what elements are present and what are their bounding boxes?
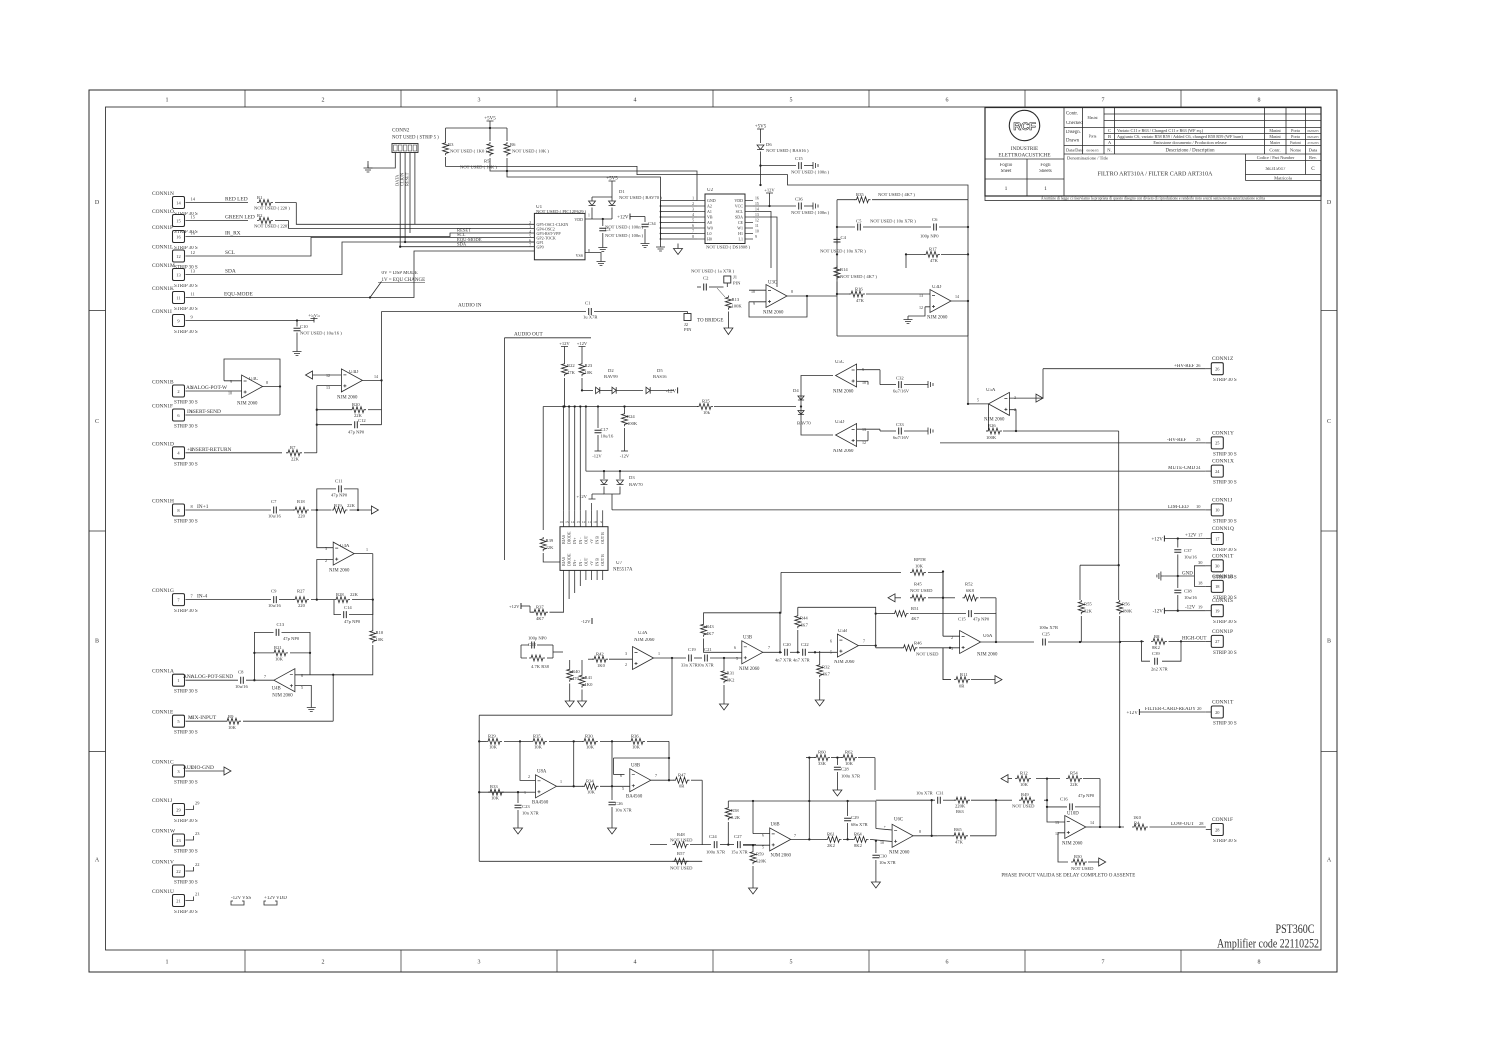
svg-text:33n X7R: 33n X7R xyxy=(681,663,699,668)
svg-text:-12V: -12V xyxy=(581,619,591,624)
svg-text:L1: L1 xyxy=(739,237,743,242)
svg-text:4: 4 xyxy=(529,230,531,234)
svg-text:C6: C6 xyxy=(932,217,938,222)
svg-text:47p NP0: 47p NP0 xyxy=(344,619,361,624)
svg-text:47K: 47K xyxy=(930,258,939,263)
svg-text:PIN: PIN xyxy=(684,327,692,332)
svg-text:C8: C8 xyxy=(238,670,244,675)
svg-text:BAV99: BAV99 xyxy=(604,374,618,379)
svg-text:-HV-REF: -HV-REF xyxy=(1167,438,1186,443)
svg-text:10k: 10k xyxy=(703,410,711,415)
svg-text:+12V: +12V xyxy=(577,341,588,346)
svg-text:NOT USED ( 100n ): NOT USED ( 100n ) xyxy=(791,210,830,215)
svg-text:INSERT-SEND: INSERT-SEND xyxy=(187,409,221,415)
svg-text:22K: 22K xyxy=(291,457,300,462)
svg-text:C21: C21 xyxy=(704,647,712,652)
svg-text:R41: R41 xyxy=(585,675,593,680)
svg-text:10n X7R: 10n X7R xyxy=(879,860,897,865)
svg-text:C: C xyxy=(1327,419,1331,425)
svg-text:100p NP0: 100p NP0 xyxy=(920,234,939,239)
svg-text:3: 3 xyxy=(951,646,953,651)
svg-text:5: 5 xyxy=(790,960,793,966)
svg-text:GND: GND xyxy=(1182,572,1193,577)
svg-text:+INSERT-RETURN: +INSERT-RETURN xyxy=(187,447,232,453)
svg-text:C37: C37 xyxy=(1184,548,1192,553)
svg-text:NOT USED: NOT USED xyxy=(1071,866,1094,871)
svg-text:C11: C11 xyxy=(335,479,343,484)
svg-text:R39: R39 xyxy=(546,538,554,543)
svg-text:CONN1T: CONN1T xyxy=(1212,553,1234,559)
svg-text:+5V5: +5V5 xyxy=(606,177,618,182)
svg-text:5: 5 xyxy=(692,219,694,223)
svg-text:IN+: IN+ xyxy=(572,559,577,566)
svg-text:Data: Data xyxy=(1309,148,1318,153)
svg-text:8: 8 xyxy=(266,380,268,385)
svg-text:Fogli: Fogli xyxy=(1040,163,1051,168)
svg-text:7: 7 xyxy=(768,645,770,650)
svg-text:R5: R5 xyxy=(484,159,490,164)
svg-text:10: 10 xyxy=(862,380,866,385)
svg-text:7: 7 xyxy=(794,833,796,838)
svg-text:BIAS: BIAS xyxy=(561,535,566,544)
svg-text:5: 5 xyxy=(790,98,793,104)
svg-text:A0: A0 xyxy=(707,220,712,225)
svg-text:1: 1 xyxy=(1044,186,1047,192)
svg-text:ELETTROACUSTICHE: ELETTROACUSTICHE xyxy=(998,153,1050,159)
svg-text:47p NP0: 47p NP0 xyxy=(331,493,348,498)
svg-text:STRIP 30 S: STRIP 30 S xyxy=(174,690,198,695)
svg-text:10: 10 xyxy=(755,230,759,234)
svg-text:6: 6 xyxy=(734,645,736,650)
svg-text:C7: C7 xyxy=(271,499,277,504)
svg-text:U4B: U4B xyxy=(272,687,281,692)
svg-text:10n X7R: 10n X7R xyxy=(615,808,633,813)
svg-text:D2: D2 xyxy=(608,368,614,373)
svg-text:BIAS: BIAS xyxy=(561,557,566,566)
svg-text:2: 2 xyxy=(177,389,179,394)
svg-text:5: 5 xyxy=(736,656,738,661)
svg-text:NOT USED ( 10n X7R ): NOT USED ( 10n X7R ) xyxy=(820,249,866,254)
svg-text:9: 9 xyxy=(230,379,232,384)
svg-text:1: 1 xyxy=(588,214,590,218)
svg-text:U6A: U6A xyxy=(983,634,993,639)
svg-text:4: 4 xyxy=(634,960,637,966)
svg-text:220K: 220K xyxy=(955,804,966,809)
svg-text:R27: R27 xyxy=(297,589,305,594)
svg-text:C: C xyxy=(1311,166,1315,172)
svg-text:16: 16 xyxy=(755,197,759,201)
svg-text:47p NP0: 47p NP0 xyxy=(973,617,990,622)
svg-text:2: 2 xyxy=(322,98,325,104)
svg-text:VDD: VDD xyxy=(734,198,743,203)
svg-text:13: 13 xyxy=(755,213,759,217)
svg-text:3: 3 xyxy=(529,225,531,229)
svg-text:06/04/05: 06/04/05 xyxy=(1307,135,1319,139)
svg-text:R17: R17 xyxy=(929,247,937,252)
svg-text:6: 6 xyxy=(620,773,622,778)
svg-text:STRIP 30 S: STRIP 30 S xyxy=(1213,481,1237,486)
svg-text:R44: R44 xyxy=(800,616,808,621)
svg-text:NOT USED ( 220 ): NOT USED ( 220 ) xyxy=(254,206,290,211)
svg-text:6: 6 xyxy=(529,239,531,243)
svg-text:NOT USED: NOT USED xyxy=(910,588,933,593)
svg-text:R31: R31 xyxy=(727,671,735,676)
svg-text:22K: 22K xyxy=(350,592,359,597)
svg-text:10K: 10K xyxy=(376,637,385,642)
svg-text:C16: C16 xyxy=(1060,797,1068,802)
svg-text:NJM 2060: NJM 2060 xyxy=(739,667,760,672)
svg-text:STRIP 30 S: STRIP 30 S xyxy=(174,284,198,289)
svg-text:R54: R54 xyxy=(1070,771,1078,776)
svg-text:4K7: 4K7 xyxy=(800,623,809,628)
svg-text:FILTRO ART310A / FILTER CARD A: FILTRO ART310A / FILTER CARD ART310A xyxy=(1097,172,1213,178)
svg-text:6: 6 xyxy=(830,639,832,644)
svg-text:4K7: 4K7 xyxy=(911,616,920,621)
svg-text:U4C: U4C xyxy=(249,377,258,382)
svg-text:11: 11 xyxy=(191,292,195,297)
svg-text:L0: L0 xyxy=(707,231,711,236)
svg-text:47K: 47K xyxy=(567,370,576,375)
svg-text:180K: 180K xyxy=(1122,609,1133,614)
svg-text:R30: R30 xyxy=(585,734,593,739)
svg-text:R11: R11 xyxy=(960,672,968,677)
svg-text:47p NP0: 47p NP0 xyxy=(1078,793,1095,798)
svg-text:4.7K R38: 4.7K R38 xyxy=(531,664,550,669)
svg-text:STRIP 30 S: STRIP 30 S xyxy=(174,781,198,786)
svg-text:82K: 82K xyxy=(1084,609,1093,614)
svg-text:CONN1T: CONN1T xyxy=(1212,700,1234,706)
svg-text:R51: R51 xyxy=(911,606,919,611)
svg-text:7: 7 xyxy=(529,243,531,247)
svg-text:4n7 X7R: 4n7 X7R xyxy=(793,658,811,663)
svg-text:+12V: +12V xyxy=(264,896,276,901)
svg-text:VCC: VCC xyxy=(735,204,744,209)
svg-text:CONN1R: CONN1R xyxy=(1212,574,1234,580)
svg-text:NOT USED ( 10K ): NOT USED ( 10K ) xyxy=(512,149,549,154)
svg-text:VSS: VSS xyxy=(576,253,583,258)
svg-text:R3: R3 xyxy=(448,142,454,147)
svg-text:R28: R28 xyxy=(336,592,344,597)
svg-text:SCL: SCL xyxy=(736,209,744,214)
svg-text:C15: C15 xyxy=(958,617,966,622)
svg-text:STRIP 30 S: STRIP 30 S xyxy=(174,850,198,855)
svg-text:C39: C39 xyxy=(1152,651,1160,656)
svg-text:Denominazione / Title: Denominazione / Title xyxy=(1067,156,1108,161)
svg-text:+12V: +12V xyxy=(764,188,775,193)
svg-text:W0: W0 xyxy=(707,226,713,231)
svg-text:4K7: 4K7 xyxy=(706,631,715,636)
svg-text:BA4560: BA4560 xyxy=(626,795,643,800)
svg-text:R19: R19 xyxy=(334,503,342,508)
svg-text:CONN1I: CONN1I xyxy=(152,309,172,315)
svg-text:0R: 0R xyxy=(679,784,685,789)
svg-text:8K2: 8K2 xyxy=(854,843,863,848)
svg-text:R18: R18 xyxy=(297,499,305,504)
svg-text:VB: VB xyxy=(707,215,713,220)
svg-text:+5V5: +5V5 xyxy=(755,125,767,130)
svg-text:STRIP 30 S: STRIP 30 S xyxy=(1213,620,1237,625)
svg-text:9: 9 xyxy=(600,520,602,524)
svg-text:27/02/05: 27/02/05 xyxy=(1307,141,1319,145)
svg-text:8: 8 xyxy=(1258,960,1261,966)
svg-text:W1: W1 xyxy=(737,226,743,231)
svg-text:10K: 10K xyxy=(586,745,595,750)
svg-text:12: 12 xyxy=(326,373,330,378)
svg-text:10K: 10K xyxy=(632,745,641,750)
svg-text:R1: R1 xyxy=(257,195,263,200)
svg-text:7: 7 xyxy=(863,639,865,644)
svg-text:RCF: RCF xyxy=(1013,121,1036,133)
svg-text:R35: R35 xyxy=(856,192,864,197)
svg-text:8K2: 8K2 xyxy=(1152,645,1161,650)
svg-text:13: 13 xyxy=(1055,820,1059,825)
svg-text:Porta: Porta xyxy=(1291,128,1300,133)
svg-text:+12V: +12V xyxy=(576,494,587,499)
svg-text:NJM 2060: NJM 2060 xyxy=(984,418,1005,423)
svg-text:IN B: IN B xyxy=(595,536,600,544)
svg-text:NOT USED ( 10u/16 ): NOT USED ( 10u/16 ) xyxy=(300,331,342,336)
svg-text:1: 1 xyxy=(692,197,694,201)
svg-text:R42: R42 xyxy=(596,652,604,657)
svg-text:2: 2 xyxy=(692,202,694,206)
svg-text:Checked: Checked xyxy=(1066,121,1083,126)
svg-text:R36: R36 xyxy=(631,734,639,739)
svg-text:R33: R33 xyxy=(490,784,498,789)
svg-text:+V: +V xyxy=(589,539,594,544)
svg-text:U3A: U3A xyxy=(638,631,648,636)
svg-text:C9: C9 xyxy=(271,589,277,594)
svg-text:4: 4 xyxy=(692,213,694,217)
svg-text:10K: 10K xyxy=(585,370,594,375)
svg-text:10n X7R: 10n X7R xyxy=(697,663,715,668)
svg-text:R14: R14 xyxy=(840,267,848,272)
svg-text:2K2: 2K2 xyxy=(827,843,836,848)
svg-text:2: 2 xyxy=(951,635,953,640)
svg-text:+12V: +12V xyxy=(1151,538,1163,543)
svg-text:U4D: U4D xyxy=(349,370,359,375)
svg-text:+5V5: +5V5 xyxy=(484,117,496,122)
svg-text:22K: 22K xyxy=(1070,782,1079,787)
svg-text:U2: U2 xyxy=(707,188,714,193)
svg-text:C4: C4 xyxy=(841,235,847,240)
svg-text:-12V: -12V xyxy=(231,896,242,901)
svg-text:C23: C23 xyxy=(522,804,530,809)
svg-text:R52: R52 xyxy=(965,582,973,587)
svg-text:DIODE: DIODE xyxy=(567,531,572,544)
svg-text:AUDIO IN: AUDIO IN xyxy=(458,303,482,309)
svg-text:CONN1M: CONN1M xyxy=(152,263,175,269)
svg-text:STRIP 30 S: STRIP 30 S xyxy=(1213,651,1237,656)
svg-text:TO BRIDGE: TO BRIDGE xyxy=(697,319,723,324)
svg-text:A termine di legge ci riservia: A termine di legge ci riserviamo la prop… xyxy=(1041,197,1266,201)
svg-text:7: 7 xyxy=(655,773,657,778)
svg-text:CONN1X: CONN1X xyxy=(1212,459,1234,465)
svg-text:STRIP 30 S: STRIP 30 S xyxy=(1213,548,1237,553)
svg-text:1: 1 xyxy=(366,547,368,552)
svg-text:NJM 2060: NJM 2060 xyxy=(272,694,293,699)
svg-text:15: 15 xyxy=(565,520,569,524)
svg-text:C1: C1 xyxy=(585,301,591,306)
svg-text:J1: J1 xyxy=(733,275,738,280)
svg-text:CONN1O: CONN1O xyxy=(152,209,174,215)
svg-text:4K7: 4K7 xyxy=(536,616,545,621)
svg-text:H1: H1 xyxy=(738,231,743,236)
svg-text:STRIP 30 S: STRIP 30 S xyxy=(1213,519,1237,524)
svg-text:D1: D1 xyxy=(619,189,625,194)
svg-text:0V = DSP MODE: 0V = DSP MODE xyxy=(382,271,418,276)
svg-text:CE: CE xyxy=(738,220,744,225)
svg-text:NOT USED ( 220): NOT USED ( 220) xyxy=(254,224,289,229)
svg-text:BA4560: BA4560 xyxy=(532,801,549,806)
svg-text:U10D: U10D xyxy=(1067,812,1079,817)
svg-text:R8: R8 xyxy=(1154,634,1160,639)
svg-text:C32: C32 xyxy=(896,376,904,381)
svg-text:47K: 47K xyxy=(856,298,865,303)
svg-text:10K: 10K xyxy=(587,790,596,795)
svg-text:DIODE: DIODE xyxy=(567,553,572,566)
svg-text:R60: R60 xyxy=(818,750,826,755)
svg-text:R57: R57 xyxy=(677,851,685,856)
svg-text:Porta: Porta xyxy=(1291,134,1300,139)
svg-text:Porta: Porta xyxy=(1089,135,1097,139)
svg-text:MUTE-CMD: MUTE-CMD xyxy=(1168,466,1196,471)
svg-text:1u X7R: 1u X7R xyxy=(583,315,598,320)
svg-text:100K: 100K xyxy=(627,421,638,426)
svg-text:C36: C36 xyxy=(795,197,803,202)
svg-text:R20: R20 xyxy=(352,402,360,407)
svg-text:12: 12 xyxy=(582,520,586,524)
svg-text:10K: 10K xyxy=(534,745,543,750)
svg-text:3: 3 xyxy=(692,208,694,212)
svg-text:VDD: VDD xyxy=(276,896,287,901)
svg-text:3: 3 xyxy=(1014,395,1016,400)
svg-text:47p NP0: 47p NP0 xyxy=(348,430,365,435)
svg-text:C: C xyxy=(95,419,99,425)
svg-text:2: 2 xyxy=(322,960,325,966)
svg-text:Master: Master xyxy=(1270,141,1281,145)
svg-text:Disegn.: Disegn. xyxy=(1066,130,1081,135)
svg-text:CONN1N: CONN1N xyxy=(152,191,174,197)
svg-text:12: 12 xyxy=(176,254,180,259)
svg-text:NOT USED ( BAS16 ): NOT USED ( BAS16 ) xyxy=(766,148,809,153)
svg-text:STRIP 30 S: STRIP 30 S xyxy=(174,819,198,824)
svg-text:6u7/16V: 6u7/16V xyxy=(893,435,910,440)
svg-text:12: 12 xyxy=(191,250,195,255)
svg-text:NOT USED ( PIC12F629 ): NOT USED ( PIC12F629 ) xyxy=(536,209,587,214)
svg-text:+HV-REF: +HV-REF xyxy=(1174,364,1195,369)
svg-text:NOT USED: NOT USED xyxy=(670,866,693,871)
svg-text:R49: R49 xyxy=(1021,792,1029,797)
svg-text:R32: R32 xyxy=(822,665,830,670)
svg-text:U5D: U5D xyxy=(835,420,845,425)
svg-text:1K0: 1K0 xyxy=(585,682,594,687)
svg-text:IN+: IN+ xyxy=(572,537,577,544)
svg-text:68n X7R: 68n X7R xyxy=(851,822,869,827)
svg-text:D: D xyxy=(95,200,100,206)
svg-text:A2: A2 xyxy=(707,204,712,209)
svg-text:-12V: -12V xyxy=(592,454,602,459)
svg-text:1: 1 xyxy=(166,960,169,966)
svg-text:220: 220 xyxy=(298,514,306,519)
svg-text:8.2K: 8.2K xyxy=(731,815,741,820)
svg-text:STRIP 30 S: STRIP 30 S xyxy=(174,307,198,312)
svg-text:STRIP 30 S: STRIP 30 S xyxy=(174,609,198,614)
svg-text:STRIP 30 S: STRIP 30 S xyxy=(174,462,198,467)
svg-text:CONN1Y: CONN1Y xyxy=(1212,430,1234,436)
svg-text:NJM 2060: NJM 2060 xyxy=(833,390,854,395)
svg-text:STRIP 30 S: STRIP 30 S xyxy=(174,910,198,915)
svg-text:Nome: Nome xyxy=(1290,148,1301,153)
svg-text:U5B: U5B xyxy=(838,629,847,634)
svg-text:U3B: U3B xyxy=(743,636,752,641)
svg-text:CONN1Z: CONN1Z xyxy=(1212,356,1233,362)
svg-text:NOT USED ( 4K7 ): NOT USED ( 4K7 ) xyxy=(840,274,877,279)
svg-text:C30: C30 xyxy=(879,854,887,859)
svg-text:10K: 10K xyxy=(275,657,284,662)
svg-text:0R: 0R xyxy=(959,684,965,689)
svg-text:D: D xyxy=(1327,200,1332,206)
svg-text:14: 14 xyxy=(374,374,378,379)
svg-text:NOT USED ( 4K7 ): NOT USED ( 4K7 ) xyxy=(878,192,915,197)
svg-text:BAV70: BAV70 xyxy=(797,421,811,426)
svg-text:13: 13 xyxy=(919,293,923,298)
svg-text:R47: R47 xyxy=(678,773,686,778)
svg-text:22K: 22K xyxy=(347,503,356,508)
svg-text:R22: R22 xyxy=(567,363,575,368)
svg-text:U4A: U4A xyxy=(340,544,350,549)
svg-text:CONN1F: CONN1F xyxy=(152,404,173,410)
svg-text:STRIP 30 S: STRIP 30 S xyxy=(174,520,198,525)
svg-text:SDA: SDA xyxy=(225,269,236,275)
svg-text:Sheet: Sheet xyxy=(1001,169,1012,174)
svg-text:7: 7 xyxy=(692,230,694,234)
svg-text:6: 6 xyxy=(692,224,694,228)
svg-text:Masini: Masini xyxy=(1269,128,1281,133)
svg-text:Contr.: Contr. xyxy=(1066,112,1078,117)
svg-text:10u/16: 10u/16 xyxy=(1184,595,1197,600)
svg-text:10K: 10K xyxy=(228,725,237,730)
svg-text:Rev.: Rev. xyxy=(1309,155,1317,160)
svg-text:21: 21 xyxy=(195,892,199,897)
svg-text:12: 12 xyxy=(755,219,759,223)
svg-text:NJM 2060: NJM 2060 xyxy=(977,653,998,658)
svg-text:NOT USED: NOT USED xyxy=(1012,804,1035,809)
svg-text:HIGH-OUT: HIGH-OUT xyxy=(1182,637,1206,642)
svg-text:OUT B: OUT B xyxy=(600,532,605,544)
svg-text:R50: R50 xyxy=(1074,854,1082,859)
svg-text:AUDIO OUT: AUDIO OUT xyxy=(514,332,544,338)
svg-text:Contr.: Contr. xyxy=(1269,148,1280,153)
svg-text:12: 12 xyxy=(919,305,923,310)
svg-text:LIM-LED: LIM-LED xyxy=(1168,505,1189,510)
svg-text:5: 5 xyxy=(529,234,531,238)
svg-text:R21: R21 xyxy=(274,645,282,650)
svg-text:Matricola: Matricola xyxy=(1274,176,1292,181)
svg-text:Drawn: Drawn xyxy=(1066,139,1080,144)
svg-text:ANALOG-POT-SEND: ANALOG-POT-SEND xyxy=(183,674,233,680)
svg-text:NJM 2060: NJM 2060 xyxy=(337,396,358,401)
svg-text:R64: R64 xyxy=(854,832,862,837)
svg-text:CONN1J: CONN1J xyxy=(152,798,172,804)
svg-text:C19: C19 xyxy=(688,647,696,652)
svg-text:ANALOG-POT-W: ANALOG-POT-W xyxy=(186,385,228,391)
svg-text:RPTH: RPTH xyxy=(914,557,926,562)
svg-text:STRIP 30 S: STRIP 30 S xyxy=(1213,722,1237,727)
svg-text:IR_RX: IR_RX xyxy=(225,231,241,237)
svg-text:RESET: RESET xyxy=(405,172,410,186)
svg-text:15u X7R: 15u X7R xyxy=(731,850,749,855)
svg-text:C34: C34 xyxy=(648,221,656,226)
